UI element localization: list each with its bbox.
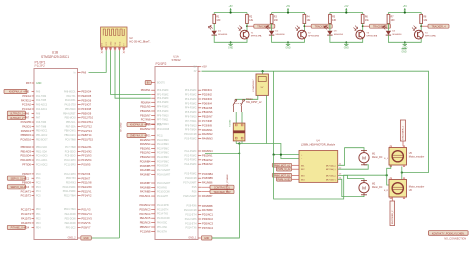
- svg-text:PF15/X4: PF15/X4: [81, 158, 92, 162]
- svg-text:PF14/Y2: PF14/Y2: [81, 194, 92, 198]
- svg-text:GND: GND: [228, 47, 233, 49]
- svg-text:TRACKER_1: TRACKER_1: [257, 25, 272, 28]
- svg-text:PB10/N1: PB10/N1: [202, 153, 213, 157]
- svg-text:PG12-SPI6: PG12-SPI6: [157, 205, 169, 207]
- P2/JP2 right-side pin rows group B: [185, 149, 214, 166]
- svg-text:PC1-ADC1: PC1-ADC1: [36, 159, 48, 162]
- regulator U7 body: [252, 74, 268, 95]
- junction tracker 4 top: [404, 11, 406, 13]
- +5V supply symbol (tracker 1): [229, 6, 234, 13]
- svg-text:PD14/D5: PD14/D5: [20, 158, 31, 162]
- svg-text:Motor_DC: Motor_DC: [372, 156, 383, 159]
- svg-text:PF3/IO8: PF3/IO8: [81, 107, 91, 111]
- svg-text:PB9-CAN1: PB9-CAN1: [64, 134, 76, 137]
- svg-text:PB4-NJRST: PB4-NJRST: [63, 113, 76, 115]
- svg-text:SFH4056: SFH4056: [218, 34, 228, 36]
- net label TRACKER_4: [428, 24, 449, 28]
- svg-text:PG1/Y3: PG1/Y3: [81, 207, 91, 211]
- svg-text:PD1/NC1: PD1/NC1: [202, 213, 214, 217]
- svg-text:PF9/A1: PF9/A1: [22, 94, 31, 98]
- +5V supply symbol (tracker 4): [403, 6, 408, 13]
- svg-text:PB1-ADC2: PB1-ADC2: [36, 134, 48, 137]
- wire tracker 4 emitter to ground rail: [405, 39, 421, 42]
- svg-text:13k: 13k: [365, 20, 370, 22]
- svg-text:PD6/IN4: PD6/IN4: [141, 100, 151, 104]
- svg-text:PC9/IN9: PC9/IN9: [202, 123, 212, 127]
- svg-text:PG1-FSMC: PG1-FSMC: [157, 144, 169, 146]
- svg-text:13k: 13k: [249, 20, 254, 22]
- ground symbol above encoder connector: [401, 49, 406, 54]
- svg-text:GND: GND: [344, 47, 349, 49]
- svg-text:PE4-DCMI: PE4-DCMI: [65, 214, 76, 216]
- wire tracker 1 R-right to phototransistor: [246, 24, 248, 31]
- svg-text:3V: 3V: [194, 71, 197, 73]
- svg-text:PA5/NB8: PA5/NB8: [202, 204, 213, 208]
- junction tracker 1 sense node: [246, 25, 248, 27]
- svg-text:SFH4056: SFH4056: [334, 34, 344, 36]
- svg-text:R8: R8: [423, 16, 427, 18]
- connector P1/JP1 body: [34, 69, 78, 240]
- svg-text:PB11/N5: PB11/N5: [202, 106, 213, 110]
- P1/JP1 left-side pin rows group 5 with net labels SERVO1/SERVO2: [7, 172, 41, 198]
- junction tracker 3 bottom: [345, 41, 347, 43]
- battery G1 body: [228, 119, 245, 141]
- svg-text:PE3/IO5: PE3/IO5: [81, 94, 91, 98]
- wire MOT-A+ to motor M1 top: [338, 148, 364, 166]
- resistor R7: [387, 14, 395, 23]
- svg-text:PB10/N1: PB10/N1: [140, 147, 151, 151]
- svg-text:PA7: PA7: [36, 117, 41, 120]
- svg-text:PC4: PC4: [36, 191, 41, 193]
- svg-text:PB13/N6: PB13/N6: [140, 109, 151, 113]
- HC-05 reference text U2 HC-05-HC_BlueTooth: [129, 36, 151, 43]
- svg-text:PD7/NC4: PD7/NC4: [202, 226, 214, 230]
- svg-text:PE7/X6: PE7/X6: [81, 172, 90, 176]
- wire tracker 1 to net label: [247, 25, 254, 27]
- junction tracker 1 top: [230, 11, 232, 13]
- svg-text:PD4: PD4: [36, 227, 41, 229]
- net label PWM_MOTOR_B2: [276, 177, 299, 181]
- wire HC-05 RXD to P2/JP2: [115, 51, 151, 99]
- svg-text:PD1: PD1: [36, 214, 41, 216]
- svg-text:PG8/Y7: PG8/Y7: [81, 226, 91, 230]
- svg-text:PD5/NC3: PD5/NC3: [140, 207, 152, 211]
- P1/JP1 right-side pin rows group B: [64, 145, 92, 166]
- wire top encoder bottom pin to node: [401, 167, 403, 173]
- svg-text:TRACKER_2: TRACKER_2: [315, 25, 330, 28]
- svg-text:D1: D1: [218, 31, 222, 33]
- svg-text:MOTOR_PITANIE: MOTOR_PITANIE: [226, 174, 229, 192]
- wire tracker 4 right drop: [420, 13, 422, 15]
- svg-text:PF8-TIM13: PF8-TIM13: [185, 125, 197, 127]
- svg-text:PB2-BOOT: PB2-BOOT: [36, 139, 48, 141]
- svg-text:PA7/D11: PA7/D11: [21, 98, 32, 102]
- svg-text:MOT-A(+): MOT-A(+): [326, 164, 336, 167]
- svg-text:PE13/X9: PE13/X9: [81, 185, 92, 189]
- svg-text:PB14/D3: PB14/D3: [21, 149, 32, 153]
- svg-text:Motor_encoder: Motor_encoder: [409, 155, 425, 158]
- svg-text:GND: GND: [401, 52, 406, 54]
- svg-text:PA1-TIM2: PA1-TIM2: [36, 95, 47, 98]
- svg-text:PE12/X1: PE12/X1: [81, 145, 92, 149]
- wire GND_2 to HC-05 GND vertical: [92, 237, 120, 239]
- svg-text:GND: GND: [285, 47, 290, 49]
- svg-text:PB13/N6: PB13/N6: [202, 110, 213, 114]
- P2/JP2 right rows group E: [184, 204, 214, 230]
- svg-text:PD12-TIM4: PD12-TIM4: [64, 196, 76, 198]
- svg-text:PG7-USART: PG7-USART: [157, 169, 171, 172]
- resistor R3: [270, 14, 278, 23]
- svg-text:PE8/T14: PE8/T14: [81, 133, 92, 137]
- junction tracker 3 sense node: [362, 25, 364, 27]
- svg-text:PG3-FSMC: PG3-FSMC: [157, 153, 169, 155]
- svg-text:PB8-CAN1: PB8-CAN1: [64, 130, 76, 133]
- P1/JP1 right-side pin rows group D: [64, 207, 92, 229]
- wire power GND vertical to bottom rail: [212, 144, 239, 239]
- svg-text:KNOPKA_A: KNOPKA_A: [9, 91, 22, 94]
- wire tracker 3 R-right to phototransistor: [362, 24, 364, 31]
- svg-text:PG5: PG5: [192, 187, 197, 189]
- connector U1A STM32F429 P2/JP2 title: [156, 55, 181, 66]
- svg-text:PF13/X3: PF13/X3: [81, 154, 92, 158]
- svg-text:VCC: VCC: [106, 41, 108, 46]
- svg-text:13k: 13k: [307, 20, 312, 22]
- svg-text:Motor_encoder: Motor_encoder: [409, 186, 425, 189]
- svg-text:PB3-SWO: PB3-SWO: [65, 109, 76, 111]
- svg-text:G1 BAT: G1 BAT: [228, 119, 231, 127]
- svg-text:PA4/NN3: PA4/NN3: [140, 138, 151, 142]
- wire tracker 2 top rail: [272, 12, 305, 14]
- svg-text:PC1: PC1: [36, 178, 41, 180]
- wire tracker 3 LED to ground rail: [330, 35, 346, 42]
- svg-text:PF6-TIM10: PF6-TIM10: [157, 115, 169, 117]
- junction power GND node: [238, 142, 240, 144]
- junction on +5V rail at regulator: [262, 70, 264, 72]
- svg-text:5V: 5V: [194, 67, 197, 69]
- svg-text:PG14/T1: PG14/T1: [21, 189, 32, 193]
- net label CONTRAST (P2 right): [192, 185, 234, 189]
- resistor R4: [303, 14, 311, 23]
- svg-text:PWM_M_B2: PWM_M_B2: [278, 179, 292, 181]
- motor M1 Motor_DC: [359, 151, 383, 165]
- svg-text:PG10-DCMI: PG10-DCMI: [157, 192, 170, 194]
- P1/JP1 right-side pin rows group C: [63, 172, 93, 198]
- svg-text:GND_2: GND_2: [68, 237, 77, 240]
- svg-text:PC2: PC2: [36, 183, 41, 185]
- svg-text:PA0/NN1: PA0/NN1: [202, 128, 213, 132]
- junction tracker 4 bottom: [404, 41, 406, 43]
- svg-text:PC11/T4: PC11/T4: [21, 212, 32, 216]
- svg-text:PD13/Y5: PD13/Y5: [81, 216, 92, 220]
- svg-text:PB15/N7: PB15/N7: [140, 113, 151, 117]
- wire tracker 2 R-left to LED: [271, 24, 273, 31]
- svg-text:PC12/T3: PC12/T3: [21, 207, 32, 211]
- resistor R6: [361, 14, 369, 23]
- wire tracker 2 left drop: [271, 13, 273, 15]
- svg-text:PA3/NB7: PA3/NB7: [140, 181, 151, 185]
- svg-text:D2: D2: [275, 31, 279, 33]
- svg-text:PC7-TIM8: PC7-TIM8: [65, 147, 76, 149]
- svg-text:PA6-TIM3: PA6-TIM3: [36, 121, 47, 124]
- svg-text:PH0-OSC: PH0-OSC: [157, 223, 168, 225]
- svg-text:MOT-B(−): MOT-B(−): [326, 179, 336, 181]
- phototransistor T2 SFH313FA: [295, 26, 319, 39]
- P1/JP1 left-side pin rows group 2: [21, 94, 48, 111]
- svg-text:GND: GND: [83, 237, 89, 240]
- wire regulator output to switch: [235, 95, 258, 99]
- svg-text:PG7-USART: PG7-USART: [183, 182, 197, 185]
- +5V supply symbol (tracker 3): [344, 6, 349, 13]
- ground symbol (tracker 3): [344, 42, 349, 49]
- svg-text:PF6-TIM10: PF6-TIM10: [185, 117, 197, 119]
- svg-text:PB14/N3: PB14/N3: [202, 162, 213, 166]
- svg-text:PA7/NB9: PA7/NB9: [140, 190, 151, 194]
- svg-text:⊣PC3: ⊣PC3: [23, 186, 30, 189]
- wire node down to bottom encoder top pin: [401, 173, 403, 180]
- svg-text:13k: 13k: [423, 20, 428, 22]
- svg-text:PC11-SPI3: PC11-SPI3: [64, 164, 76, 166]
- wire tracker 1 LED to ground rail: [214, 35, 230, 42]
- svg-text:PA2/NN2: PA2/NN2: [140, 127, 151, 131]
- LED D3 SFH4056: [324, 25, 344, 36]
- svg-text:PF2-FSMC: PF2-FSMC: [185, 99, 197, 101]
- svg-text:PC3: PC3: [36, 187, 41, 189]
- svg-text:M: M: [362, 185, 366, 190]
- svg-text:STM32: STM32: [171, 58, 180, 62]
- svg-text:MOT-B(+): MOT-B(+): [326, 175, 336, 177]
- svg-text:PG4-FSMC: PG4-FSMC: [185, 164, 197, 166]
- junction tracker 2 top: [287, 11, 289, 13]
- junction L298N +5V: [273, 154, 275, 156]
- wire GND_1 to power vertical: [212, 237, 239, 239]
- P1/JP1 left-side pin rows group 6 with net label PITANIE: [7, 207, 41, 229]
- P1/JP1 GND_2 pin and GND net label: [68, 236, 92, 240]
- connector P2/JP2 body: [155, 67, 198, 240]
- module U6 Motor_encoder body: [389, 178, 424, 199]
- ground symbol (tracker 2): [285, 42, 290, 49]
- svg-text:PG14-TX6: PG14-TX6: [157, 214, 169, 216]
- P1/JP1 right-side pin row PA9 (UART to HC-05): [74, 70, 87, 74]
- svg-text:PE11/X8: PE11/X8: [81, 181, 92, 185]
- svg-text:PB12/N2: PB12/N2: [140, 151, 151, 155]
- wire tracker 2 right drop: [303, 13, 305, 15]
- wire tracker 2 to net label: [304, 25, 311, 27]
- svg-text:PG6-DCMI: PG6-DCMI: [157, 166, 169, 168]
- P2/JP2 left rows group 4: [140, 151, 171, 177]
- svg-text:PG9: PG9: [157, 125, 162, 127]
- svg-text:T3: T3: [366, 32, 369, 34]
- svg-text:PA10/T6: PA10/T6: [21, 221, 31, 225]
- svg-text:PD13/T11: PD13/T11: [81, 120, 93, 124]
- svg-text:⊣PD4: ⊣PD4: [23, 227, 30, 230]
- svg-text:PG11: PG11: [157, 135, 163, 137]
- junction at power switch column: [239, 153, 241, 155]
- svg-text:U6: U6: [409, 190, 413, 192]
- svg-text:PA3/NB7: PA3/NB7: [140, 173, 151, 177]
- svg-text:TRACKER_4: TRACKER_4: [431, 25, 446, 28]
- svg-text:PG3-FSMC: PG3-FSMC: [185, 160, 197, 162]
- wire +5V rail from P2 to encoders: [202, 71, 429, 172]
- svg-text:PE1/NC5: PE1/NC5: [140, 216, 151, 220]
- junction L298N GND: [280, 154, 282, 156]
- svg-text:+5V: +5V: [286, 6, 291, 8]
- svg-text:PB6-SCL: PB6-SCL: [66, 122, 76, 124]
- P1/JP1 right-side pin rows group A: [63, 90, 94, 142]
- svg-text:M1: M1: [372, 154, 376, 156]
- svg-text:BT_GND: BT_GND: [121, 122, 123, 131]
- wire switch to battery: [234, 106, 242, 124]
- svg-text:PC1/A4: PC1/A4: [22, 107, 31, 111]
- svg-text:PF5-FSMC: PF5-FSMC: [157, 111, 169, 113]
- svg-text:+5V: +5V: [344, 6, 349, 8]
- net label TRACKER (P2 right): [192, 190, 234, 194]
- svg-text:PB10-SCK: PB10-SCK: [36, 147, 48, 149]
- net label PWM_MOTOR_B1: [272, 173, 299, 177]
- svg-text:R7: R7: [391, 16, 395, 18]
- svg-text:PC10/N8: PC10/N8: [140, 229, 151, 233]
- svg-text:PC7/IN8: PC7/IN8: [202, 119, 212, 123]
- svg-text:PF0-FSMC: PF0-FSMC: [185, 90, 197, 92]
- net label TRACKER_3: [370, 24, 391, 28]
- svg-text:PC8/NB5: PC8/NB5: [140, 164, 151, 168]
- svg-text:PD10/D4: PD10/D4: [20, 154, 31, 158]
- wire MOT-B+ to motor M2 top: [338, 175, 364, 180]
- svg-text:PD12/T10: PD12/T10: [81, 116, 93, 120]
- svg-text:PB11-SDA: PB11-SDA: [36, 150, 47, 153]
- svg-text:PG0/X5: PG0/X5: [81, 162, 91, 166]
- svg-text:PC2-ADC2: PC2-ADC2: [36, 163, 48, 166]
- svg-text:PE10/T15: PE10/T15: [81, 137, 93, 141]
- svg-text:PG4-FSMC: PG4-FSMC: [157, 157, 169, 159]
- wire tracker 2 LED to ground rail: [272, 35, 288, 42]
- svg-text:PG0-FSMC: PG0-FSMC: [157, 140, 169, 142]
- svg-text:130: 130: [391, 20, 396, 22]
- svg-text:PA9-TX1: PA9-TX1: [66, 95, 76, 98]
- svg-text:⊣PA6: ⊣PA6: [23, 112, 30, 115]
- svg-text:PH2-ETH: PH2-ETH: [157, 231, 167, 233]
- svg-text:PB5/IO9: PB5/IO9: [81, 111, 91, 115]
- net label TRACKER_2: [311, 24, 332, 28]
- svg-text:T2: T2: [308, 32, 311, 34]
- svg-text:RXD: RXD: [119, 41, 121, 46]
- svg-text:ENCODER_2: ENCODER_2: [392, 210, 394, 224]
- svg-text:U7 AMS1117: U7 AMS1117: [252, 79, 255, 92]
- wire tracker 1 R-left to LED: [213, 24, 215, 31]
- svg-text:PF2-FSMC: PF2-FSMC: [157, 98, 169, 100]
- svg-text:PD11/Y4: PD11/Y4: [81, 212, 92, 216]
- svg-text:PD5/NC3: PD5/NC3: [202, 221, 214, 225]
- svg-text:PE15/Y1: PE15/Y1: [81, 189, 92, 193]
- junction tracker 4 sense node: [420, 25, 422, 27]
- svg-text:PG0-FSMC: PG0-FSMC: [185, 139, 197, 141]
- svg-text:PA2-TIM5: PA2-TIM5: [36, 99, 47, 102]
- svg-text:P1/JP2: P1/JP2: [35, 64, 46, 68]
- svg-text:PB6/NC7: PB6/NC7: [140, 225, 151, 229]
- svg-text:PC5: PC5: [36, 196, 41, 198]
- svg-text:HC-05-HC_BlueT..: HC-05-HC_BlueT..: [129, 39, 151, 43]
- P2/JP2 right rows group D: [183, 194, 213, 198]
- svg-text:PG8-USART: PG8-USART: [157, 174, 171, 177]
- svg-text:130: 130: [274, 20, 279, 22]
- svg-text:PG6-DCMI: PG6-DCMI: [185, 178, 197, 180]
- svg-text:PC6-TIM8: PC6-TIM8: [65, 139, 76, 141]
- wire power GND horizontal to L298N: [239, 144, 299, 159]
- svg-text:PE14/X2: PE14/X2: [81, 149, 92, 153]
- svg-text:PC7/IN8: PC7/IN8: [141, 118, 151, 122]
- svg-text:PF0-I2C2: PF0-I2C2: [66, 227, 77, 229]
- resistor R5: [329, 14, 337, 23]
- svg-text:PC6/NB4: PC6/NB4: [202, 172, 213, 176]
- P2/JP2 right-side 3V pin row: [194, 71, 201, 73]
- svg-text:GND: GND: [111, 41, 113, 46]
- svg-text:⊣PG1: ⊣PG1: [144, 135, 151, 138]
- svg-text:PA12/T5: PA12/T5: [21, 216, 31, 220]
- svg-text:PF1/IO7: PF1/IO7: [81, 103, 91, 107]
- svg-text:PG15-DCMI: PG15-DCMI: [157, 218, 170, 220]
- ground symbol (tracker 4): [402, 42, 407, 49]
- junction tracker 2 sense node: [304, 25, 306, 27]
- motor M2 Motor_DC: [359, 181, 383, 195]
- svg-text:M2: M2: [372, 184, 376, 186]
- P2/JP2 right-side pin rows group C with CONTRAST/TRACKER labels: [183, 172, 213, 185]
- svg-text:PG2-FSMC: PG2-FSMC: [157, 148, 169, 150]
- svg-text:PA1/NB6: PA1/NB6: [140, 168, 151, 172]
- svg-text:PD10-FSMC: PD10-FSMC: [63, 187, 76, 189]
- svg-text:PF9-TIM14: PF9-TIM14: [185, 130, 197, 132]
- net label KONTAKTY_PODKLYUCHENIYA (bottom right): [428, 231, 468, 236]
- svg-text:PD9-RX3: PD9-RX3: [66, 183, 76, 185]
- P1/JP1 left-side pin rows group 4: [20, 145, 48, 166]
- svg-text:U5: U5: [409, 153, 413, 155]
- P2/JP2 left rows group 5: [140, 181, 171, 198]
- P2/JP2 right-side +5V pin and wire to rail: [194, 65, 207, 69]
- svg-text:PA5/NB8: PA5/NB8: [140, 185, 151, 189]
- HC-05 pins 1-6: [101, 47, 125, 53]
- svg-text:SFH313FA: SFH313FA: [425, 35, 436, 38]
- svg-text:PD8-TX3: PD8-TX3: [66, 178, 76, 180]
- svg-text:E_L: E_L: [384, 158, 389, 160]
- svg-text:PC0: PC0: [36, 174, 41, 176]
- svg-text:PE6-DCMI: PE6-DCMI: [65, 223, 76, 225]
- svg-text:PG3/T13: PG3/T13: [81, 129, 92, 133]
- junction tracker 2 bottom: [287, 41, 289, 43]
- svg-text:PB9/D9: PB9/D9: [22, 181, 31, 185]
- svg-text:R1: R1: [216, 16, 220, 18]
- svg-text:PC0-ADC0: PC0-ADC0: [36, 155, 48, 158]
- svg-text:ZMEYKA_V: ZMEYKA_V: [130, 135, 143, 138]
- svg-text:PC5/A55: PC5/A55: [21, 120, 32, 124]
- net label PWM_MOTOR_A1: [272, 163, 299, 167]
- svg-text:M: M: [362, 155, 366, 160]
- svg-text:PF10-DCMI: PF10-DCMI: [157, 129, 169, 131]
- connector U1B STM32F429-DISC1 P1/JP1 title: [35, 51, 70, 69]
- svg-text:PG10-DCMI: PG10-DCMI: [184, 210, 197, 212]
- svg-text:PF10-DCMI: PF10-DCMI: [184, 134, 196, 136]
- svg-text:BOOT0: BOOT0: [157, 83, 166, 85]
- svg-text:PC6/D16: PC6/D16: [20, 137, 31, 141]
- svg-text:PA3/NB7: PA3/NB7: [202, 194, 213, 198]
- svg-text:PD3: PD3: [36, 223, 41, 225]
- phototransistor T3 SFH313FA: [354, 26, 378, 39]
- wire junction to top encoder bottom-left pin: [387, 165, 391, 175]
- junction tracker 1 bottom: [230, 41, 232, 43]
- svg-text:L298N_HEW-MOTOR_Module: L298N_HEW-MOTOR_Module: [301, 143, 336, 146]
- wire tracker 4 to net label: [421, 25, 428, 27]
- svg-text:PC8-SDIO: PC8-SDIO: [65, 151, 76, 153]
- svg-text:PD4/IN3: PD4/IN3: [202, 97, 212, 101]
- svg-text:PB15/D2: PB15/D2: [21, 145, 32, 149]
- wire junction down to bottom encoder left pin: [387, 175, 391, 185]
